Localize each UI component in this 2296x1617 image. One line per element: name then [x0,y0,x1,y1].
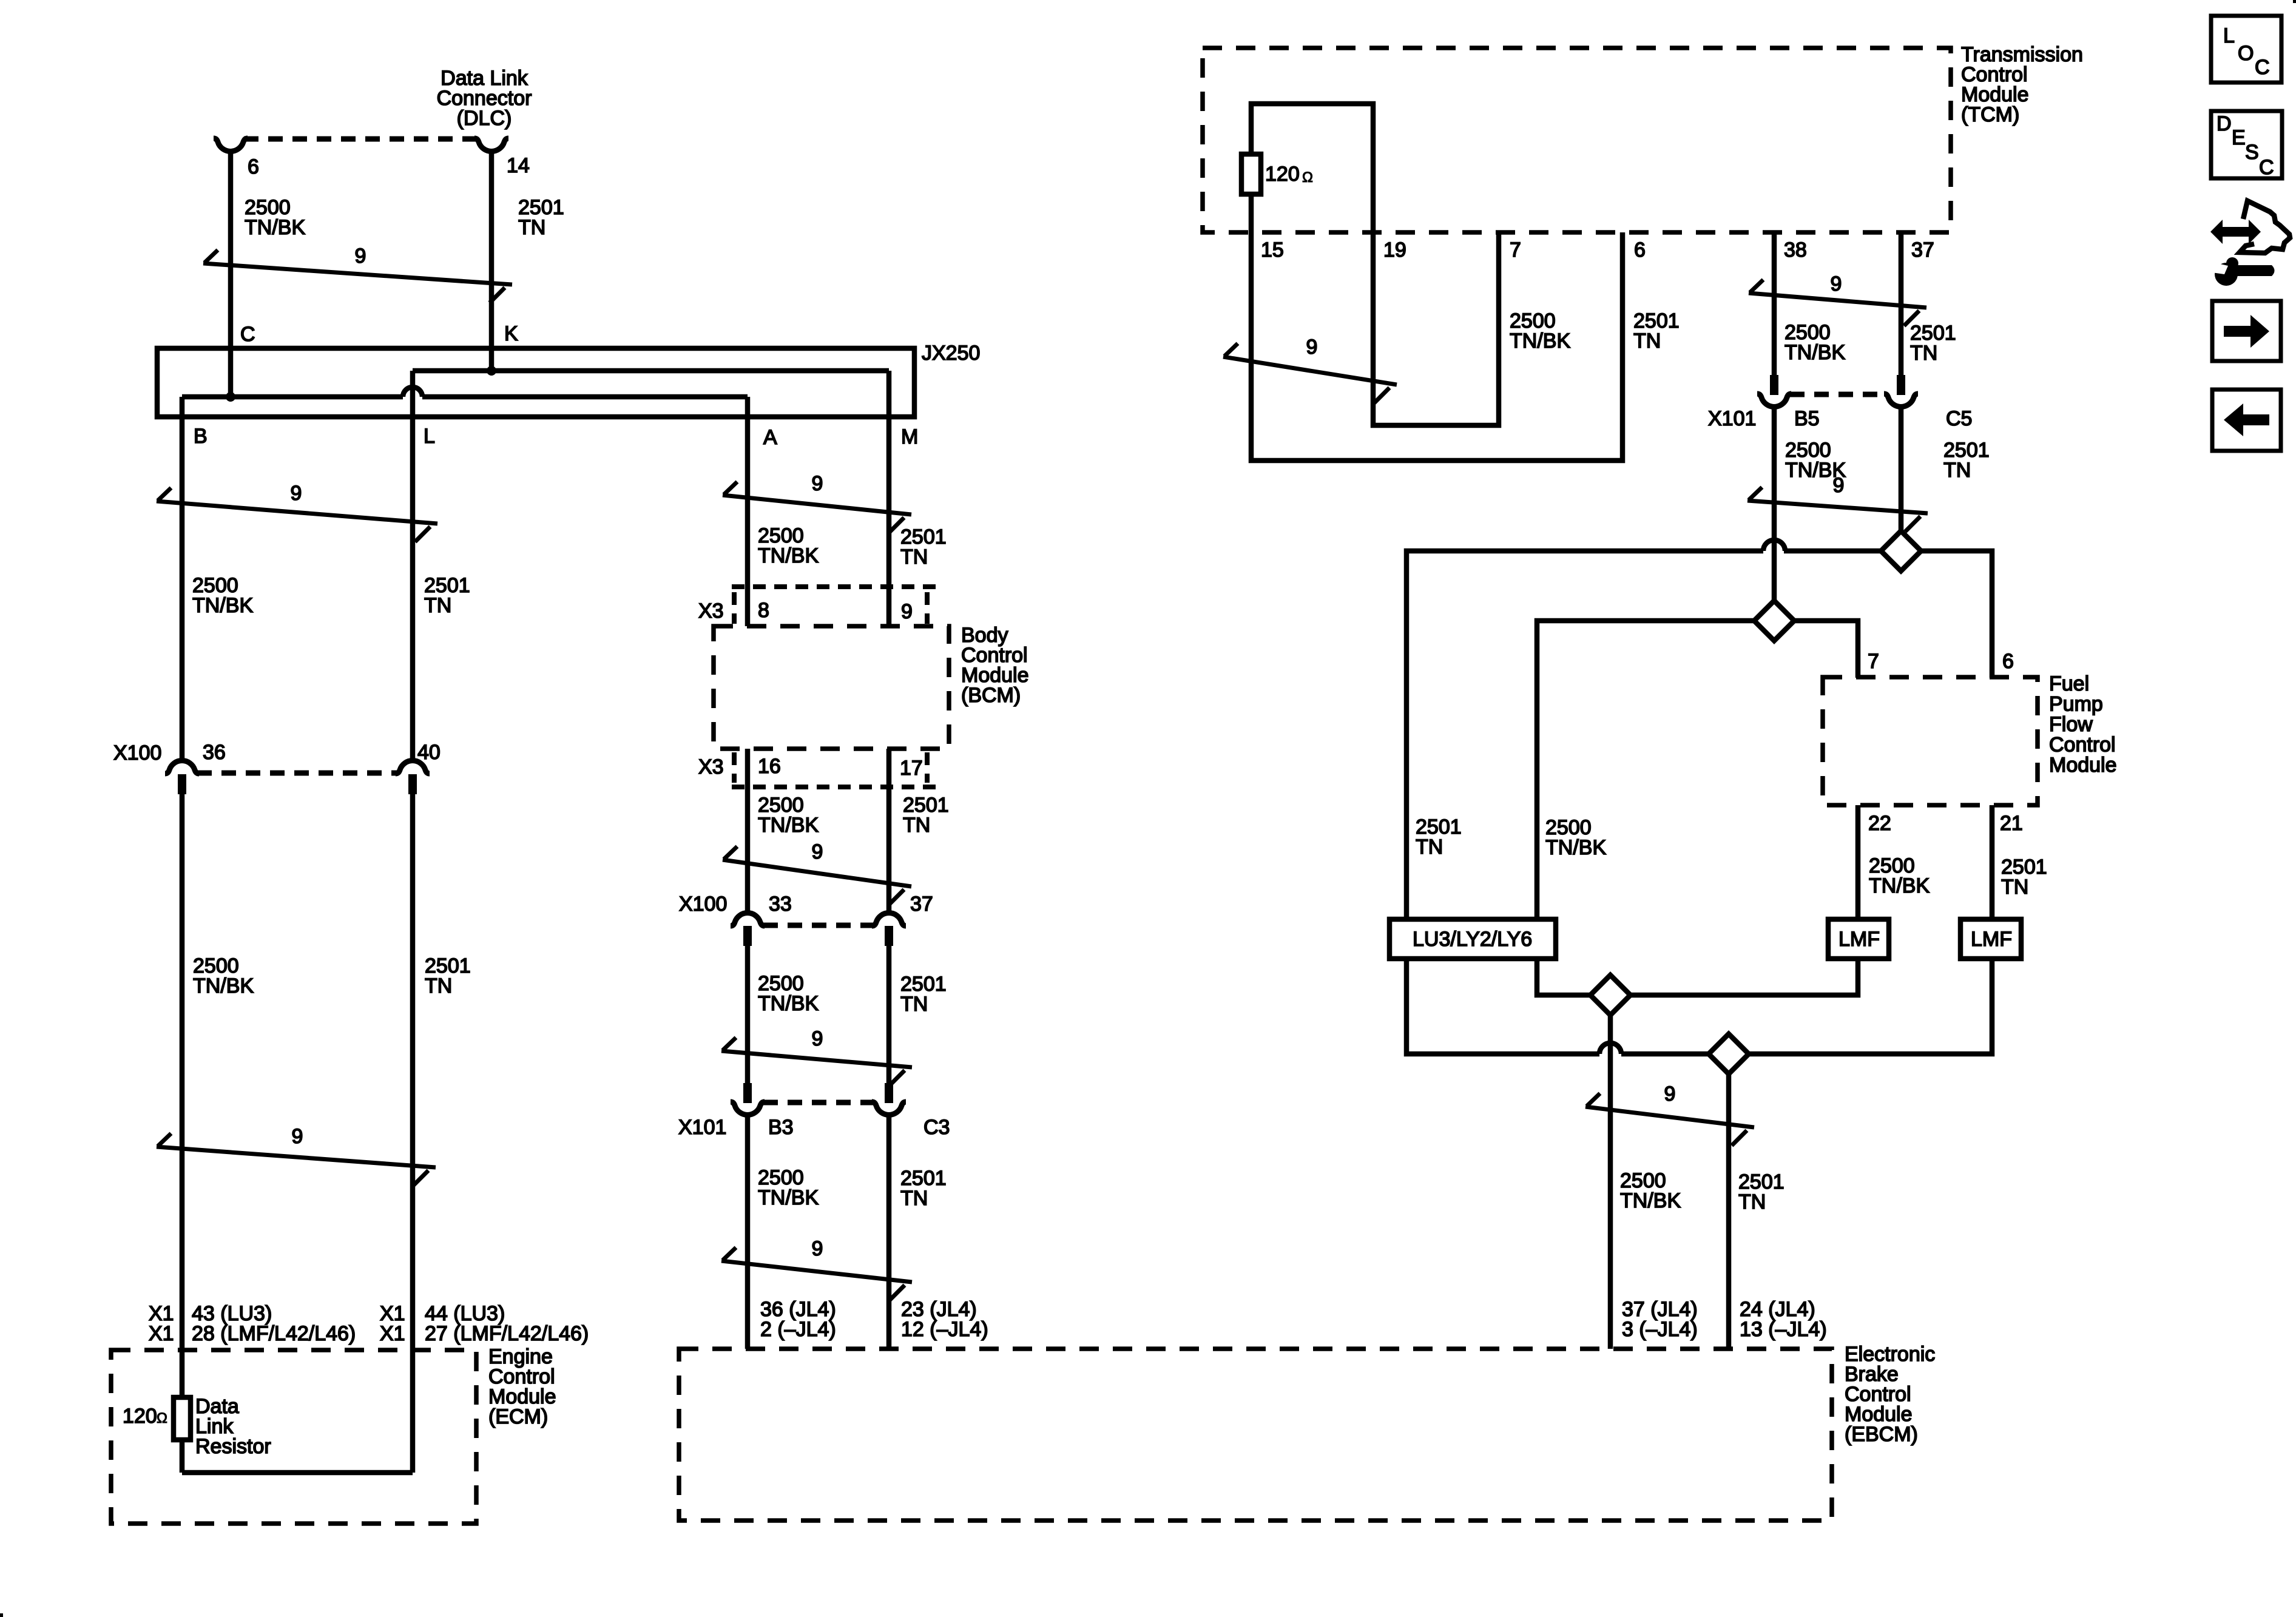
svg-text:JX250: JX250 [922,342,980,365]
wire 2501 TN X100 to ECM [410,794,416,1473]
svg-text:B3: B3 [768,1116,794,1139]
svg-text:28 (LMF/L42/L46): 28 (LMF/L42/L46) [192,1322,356,1345]
X101 terminal B5 male [1770,375,1778,395]
svg-text:33: 33 [769,893,792,916]
wire jumper inside ECM [182,1470,413,1476]
svg-text:C3: C3 [923,1116,950,1139]
X100 terminal 37 male [885,926,893,946]
svg-text:TN/BK: TN/BK [758,992,819,1015]
svg-text:TN: TN [1738,1190,1766,1214]
connector X3 (top strip) [732,584,936,589]
svg-text:7: 7 [1510,238,1521,262]
bus 2501 TN left of splice (hops over 2500 wire) [1784,549,1881,554]
X101 terminal C5 male [1897,375,1905,395]
wire 2501 TN X101 C5 down [1899,408,1904,532]
svg-text:TN/BK: TN/BK [1784,341,1845,364]
svg-text:9: 9 [1831,272,1842,295]
wire 2500 TN/BK FPFCM pin 22 to LMF [1855,805,1861,920]
Fuel Pump Flow Control Module box [1823,677,2038,805]
svg-text:O: O [2238,42,2254,65]
TCM internal loop wire pins 15-19 [1251,104,1499,425]
wire 2500 TN/BK X101 to EBCM [745,1116,751,1349]
connector X100 middle (dashed body) [763,923,874,928]
svg-text:B5: B5 [1794,407,1820,430]
svg-text:A: A [763,426,777,449]
svg-text:TN: TN [903,814,930,837]
svg-text:12 (–JL4): 12 (–JL4) [901,1318,988,1341]
bus 2500 TN/BK left of splice [1537,621,1755,920]
Body Control Module (BCM) box [714,626,949,749]
Transmission Control Module (TCM) box [1203,48,1951,232]
svg-text:9: 9 [355,245,366,268]
connector X101 middle (dashed body) [763,1100,874,1106]
icon LOC box [2211,16,2281,83]
svg-text:21: 21 [2000,812,2023,835]
bus B-C-A inside JX250 (hops over L wire) [182,394,403,400]
svg-text:TN/BK: TN/BK [192,594,253,617]
wire 2501 TN X101 to EBCM [886,1116,892,1349]
svg-text:Fuel: Fuel [2049,672,2089,695]
wire 2500 TN/BK BCM to X100 [745,749,751,913]
connector X3 (bottom strip) [732,785,936,789]
wire-size slash "S11 EBCM" [1585,1082,1754,1146]
svg-text:37: 37 [910,893,933,916]
svg-text:9: 9 [812,1027,823,1050]
Electronic Brake Control Module (EBCM) box [679,1349,1832,1521]
svg-text:C: C [240,323,255,346]
wire pin 15 to pin 6 loop [1251,194,1622,461]
svg-text:C: C [2259,156,2274,179]
X101 terminal B5 female [1757,394,1791,407]
svg-text:TN: TN [424,594,451,617]
option box LU3/LY2/LY6 [1389,919,1556,959]
svg-text:TN/BK: TN/BK [758,544,819,567]
svg-text:9: 9 [1306,336,1318,359]
wire-size slash "S9 TCM right" [1749,272,1926,326]
icon wiring/diagnostic (arrow, plug, wrench) [2210,201,2290,286]
svg-text:TN/BK: TN/BK [1869,874,1930,897]
bus 2501 TN right of splice to FPFCM pin 6 [1921,551,1992,678]
svg-text:TN: TN [1416,836,1443,859]
svg-text:9: 9 [812,1237,823,1260]
wire 2501 TN BCM to X100 [886,749,892,913]
bus 2500 TN/BK bottom right arm to LMF [1630,957,1858,995]
svg-text:TN: TN [900,1187,928,1210]
bus 2500 TN/BK bottom left arm [1537,957,1590,995]
Engine Control Module (ECM) box [111,1350,476,1524]
splice diamond (2500 TN/BK circuit) [1754,601,1794,641]
svg-text:120: 120 [123,1405,157,1428]
wire-size slash "S6 mid2" [721,1027,912,1085]
svg-text:TN: TN [1910,342,1937,365]
DLC terminal pin 6 (female cup) [214,138,248,151]
svg-text:17: 17 [900,757,923,780]
option box LMF (left) [1828,919,1889,959]
svg-text:(ECM): (ECM) [488,1405,548,1428]
junction dot C [226,392,235,402]
option box LMF (right) [1960,919,2021,959]
wire resistor to bottom jumper [180,1440,185,1473]
wire-size slash "S5 mid" [723,840,911,905]
X101 terminal C3 female [872,1102,906,1115]
X101 terminal C3 male [885,1083,893,1103]
wire 2500 TN/BK X100 to X101 [745,946,751,1083]
X100 terminal 33 male [743,926,752,946]
wire-size slash "S1 DLC" [203,245,512,303]
X101 terminal C5 female [1884,394,1918,407]
svg-text:S: S [2245,141,2259,164]
svg-text:9: 9 [901,600,913,623]
svg-text:TN: TN [1943,459,1971,482]
svg-text:TN: TN [900,993,928,1016]
wire-size slash "S10 B5/C5" [1747,474,1928,532]
svg-text:37: 37 [1911,238,1934,262]
svg-text:TN: TN [425,974,452,998]
svg-text:X101: X101 [1708,407,1756,430]
svg-text:13 (–JL4): 13 (–JL4) [1740,1318,1827,1341]
wire 2501 TN from TCM pin 37 [1899,232,1904,375]
svg-text:Ω: Ω [157,1410,167,1426]
page corner mark bottom-left [0,1613,3,1617]
svg-text:9: 9 [812,840,823,863]
wire-size slash "S2 B/L" [157,482,437,542]
svg-text:LU3/LY2/LY6: LU3/LY2/LY6 [1413,928,1532,951]
svg-text:D: D [2217,112,2232,135]
wire 2501 TN FPFCM pin 21 to LMF [1990,805,1995,920]
svg-text:2 (–JL4): 2 (–JL4) [760,1318,836,1341]
wire 2500 TN/BK X100 to ECM [180,794,185,1398]
svg-text:TN/BK: TN/BK [193,974,254,998]
svg-text:L: L [424,425,435,448]
svg-text:6: 6 [1634,238,1646,262]
svg-text:C: C [2255,56,2270,79]
svg-text:K: K [504,322,518,345]
svg-text:6: 6 [2002,650,2014,673]
junction dot K [487,366,496,376]
svg-text:16: 16 [758,755,781,778]
svg-text:Control: Control [2049,734,2116,757]
wire 2501 TN splice to EBCM pin 24 [1726,1074,1732,1349]
svg-text:B: B [194,425,208,448]
svg-text:TN/BK: TN/BK [1510,329,1570,353]
connector X101 right (dashed body) [1790,392,1885,397]
svg-text:TN/BK: TN/BK [1545,836,1606,859]
svg-text:LMF: LMF [1838,928,1880,951]
svg-text:TN/BK: TN/BK [758,1186,819,1209]
svg-text:19: 19 [1383,238,1406,262]
svg-text:Flow: Flow [2049,713,2093,736]
bus 2501 TN bottom right arm to LMF [1749,957,1992,1054]
svg-text:X3: X3 [698,755,724,778]
connector DLC (dashed body) [244,137,478,142]
page corner mark top-right [2293,0,2296,3]
wire 2500 TN/BK from DLC pin 6 [228,152,234,397]
svg-text:TN: TN [518,216,545,239]
bus 2500 TN/BK right of splice to FPFCM pin 7 [1794,621,1858,678]
svg-text:X100: X100 [679,893,727,916]
icon DESC box [2211,111,2282,179]
svg-text:9: 9 [1664,1082,1676,1106]
svg-text:X1: X1 [380,1322,405,1345]
svg-text:9: 9 [291,482,302,505]
X100 terminal 40 male [408,774,417,794]
svg-text:27 (LMF/L42/L46): 27 (LMF/L42/L46) [425,1322,589,1345]
wire-size slash "S8 TCM" [1223,336,1397,403]
wire 2500 TN/BK X101 B5 down [1772,408,1777,601]
svg-text:TN: TN [2001,876,2028,899]
svg-text:14: 14 [507,154,530,177]
X101 terminal B3 female [731,1102,765,1115]
wire 2500 TN/BK (A) JX250 to BCM [745,397,751,626]
X100 terminal 40 female [396,761,430,774]
svg-text:E: E [2232,126,2246,149]
splice diamond (2501 TN circuit) [1881,531,1921,571]
wire 2501 TN X100 to X101 [886,946,892,1083]
svg-text:TN: TN [900,545,928,569]
DLC terminal pin 14 (female cup) [474,138,508,151]
splice diamond (2500 TN/BK bottom) [1590,975,1630,1015]
wire-size slash "S7 mid3" [721,1237,912,1300]
wire 2501 TN (M) JX250 to BCM [886,371,892,626]
wire 2500 TN/BK splice to EBCM pin 37 [1608,1015,1613,1349]
X100 terminal 37 female [872,913,906,926]
svg-text:(DLC): (DLC) [457,107,512,130]
splice diamond (2501 TN bottom) [1709,1034,1749,1074]
wire 2501 TN (L) JX250 to X100 [410,371,416,760]
svg-text:LMF: LMF [1971,928,2012,951]
X100 terminal 36 female [165,761,199,774]
bus 2501 TN bottom left arm (hops over 2500 wire) [1406,957,1599,1054]
svg-text:(BCM): (BCM) [961,684,1021,707]
wire-size slash "S4 ECM" [157,1125,436,1186]
svg-text:3 (–JL4): 3 (–JL4) [1622,1318,1698,1341]
svg-text:8: 8 [758,599,769,622]
svg-text:9: 9 [1833,474,1845,497]
svg-text:X3: X3 [698,599,724,623]
svg-text:C5: C5 [1946,407,1972,430]
wire 2500 TN/BK (B) JX250 to X100 [180,397,185,760]
wire-size slash "S3 A/M" [723,472,911,533]
svg-text:Pump: Pump [2049,693,2103,716]
svg-text:Resistor: Resistor [195,1435,271,1458]
svg-text:TN/BK: TN/BK [1620,1189,1681,1212]
svg-text:TN/BK: TN/BK [245,216,305,239]
connector X100 (dashed body) [197,771,397,776]
icon back arrow box [2212,390,2281,451]
junction block JX250 (box) [157,348,914,417]
resistor 120 ohm in TCM [1241,154,1261,194]
svg-text:9: 9 [292,1125,303,1148]
svg-text:6: 6 [248,155,259,178]
svg-text:120: 120 [1265,163,1300,186]
svg-text:TN/BK: TN/BK [758,814,819,837]
wire 2501 TN from DLC pin 14 [489,152,495,371]
svg-text:Module: Module [2049,754,2117,777]
svg-text:22: 22 [1868,812,1891,835]
svg-text:L: L [2223,24,2235,47]
svg-text:38: 38 [1784,238,1807,262]
X100 terminal 36 male [178,774,186,794]
svg-text:TN: TN [1633,329,1661,353]
icon forward arrow box [2212,301,2281,361]
X101 terminal B3 male [743,1083,752,1103]
svg-text:Ω: Ω [1302,169,1313,186]
svg-text:X1: X1 [149,1322,174,1345]
svg-text:15: 15 [1261,238,1284,262]
resistor 120 ohm (Data Link Resistor) [174,1397,191,1440]
bus K-L-M inside JX250 [413,368,889,374]
svg-text:7: 7 [1868,650,1879,673]
wire 2500 TN/BK from TCM pin 38 [1772,232,1777,375]
svg-text:M: M [901,425,918,448]
svg-text:X101: X101 [678,1116,726,1139]
svg-text:X100: X100 [113,741,161,765]
X100 terminal 33 female [731,913,765,926]
svg-text:36: 36 [203,741,226,764]
svg-text:(TCM): (TCM) [1961,103,2019,126]
svg-text:9: 9 [812,472,823,495]
svg-text:(EBCM): (EBCM) [1845,1423,1918,1446]
